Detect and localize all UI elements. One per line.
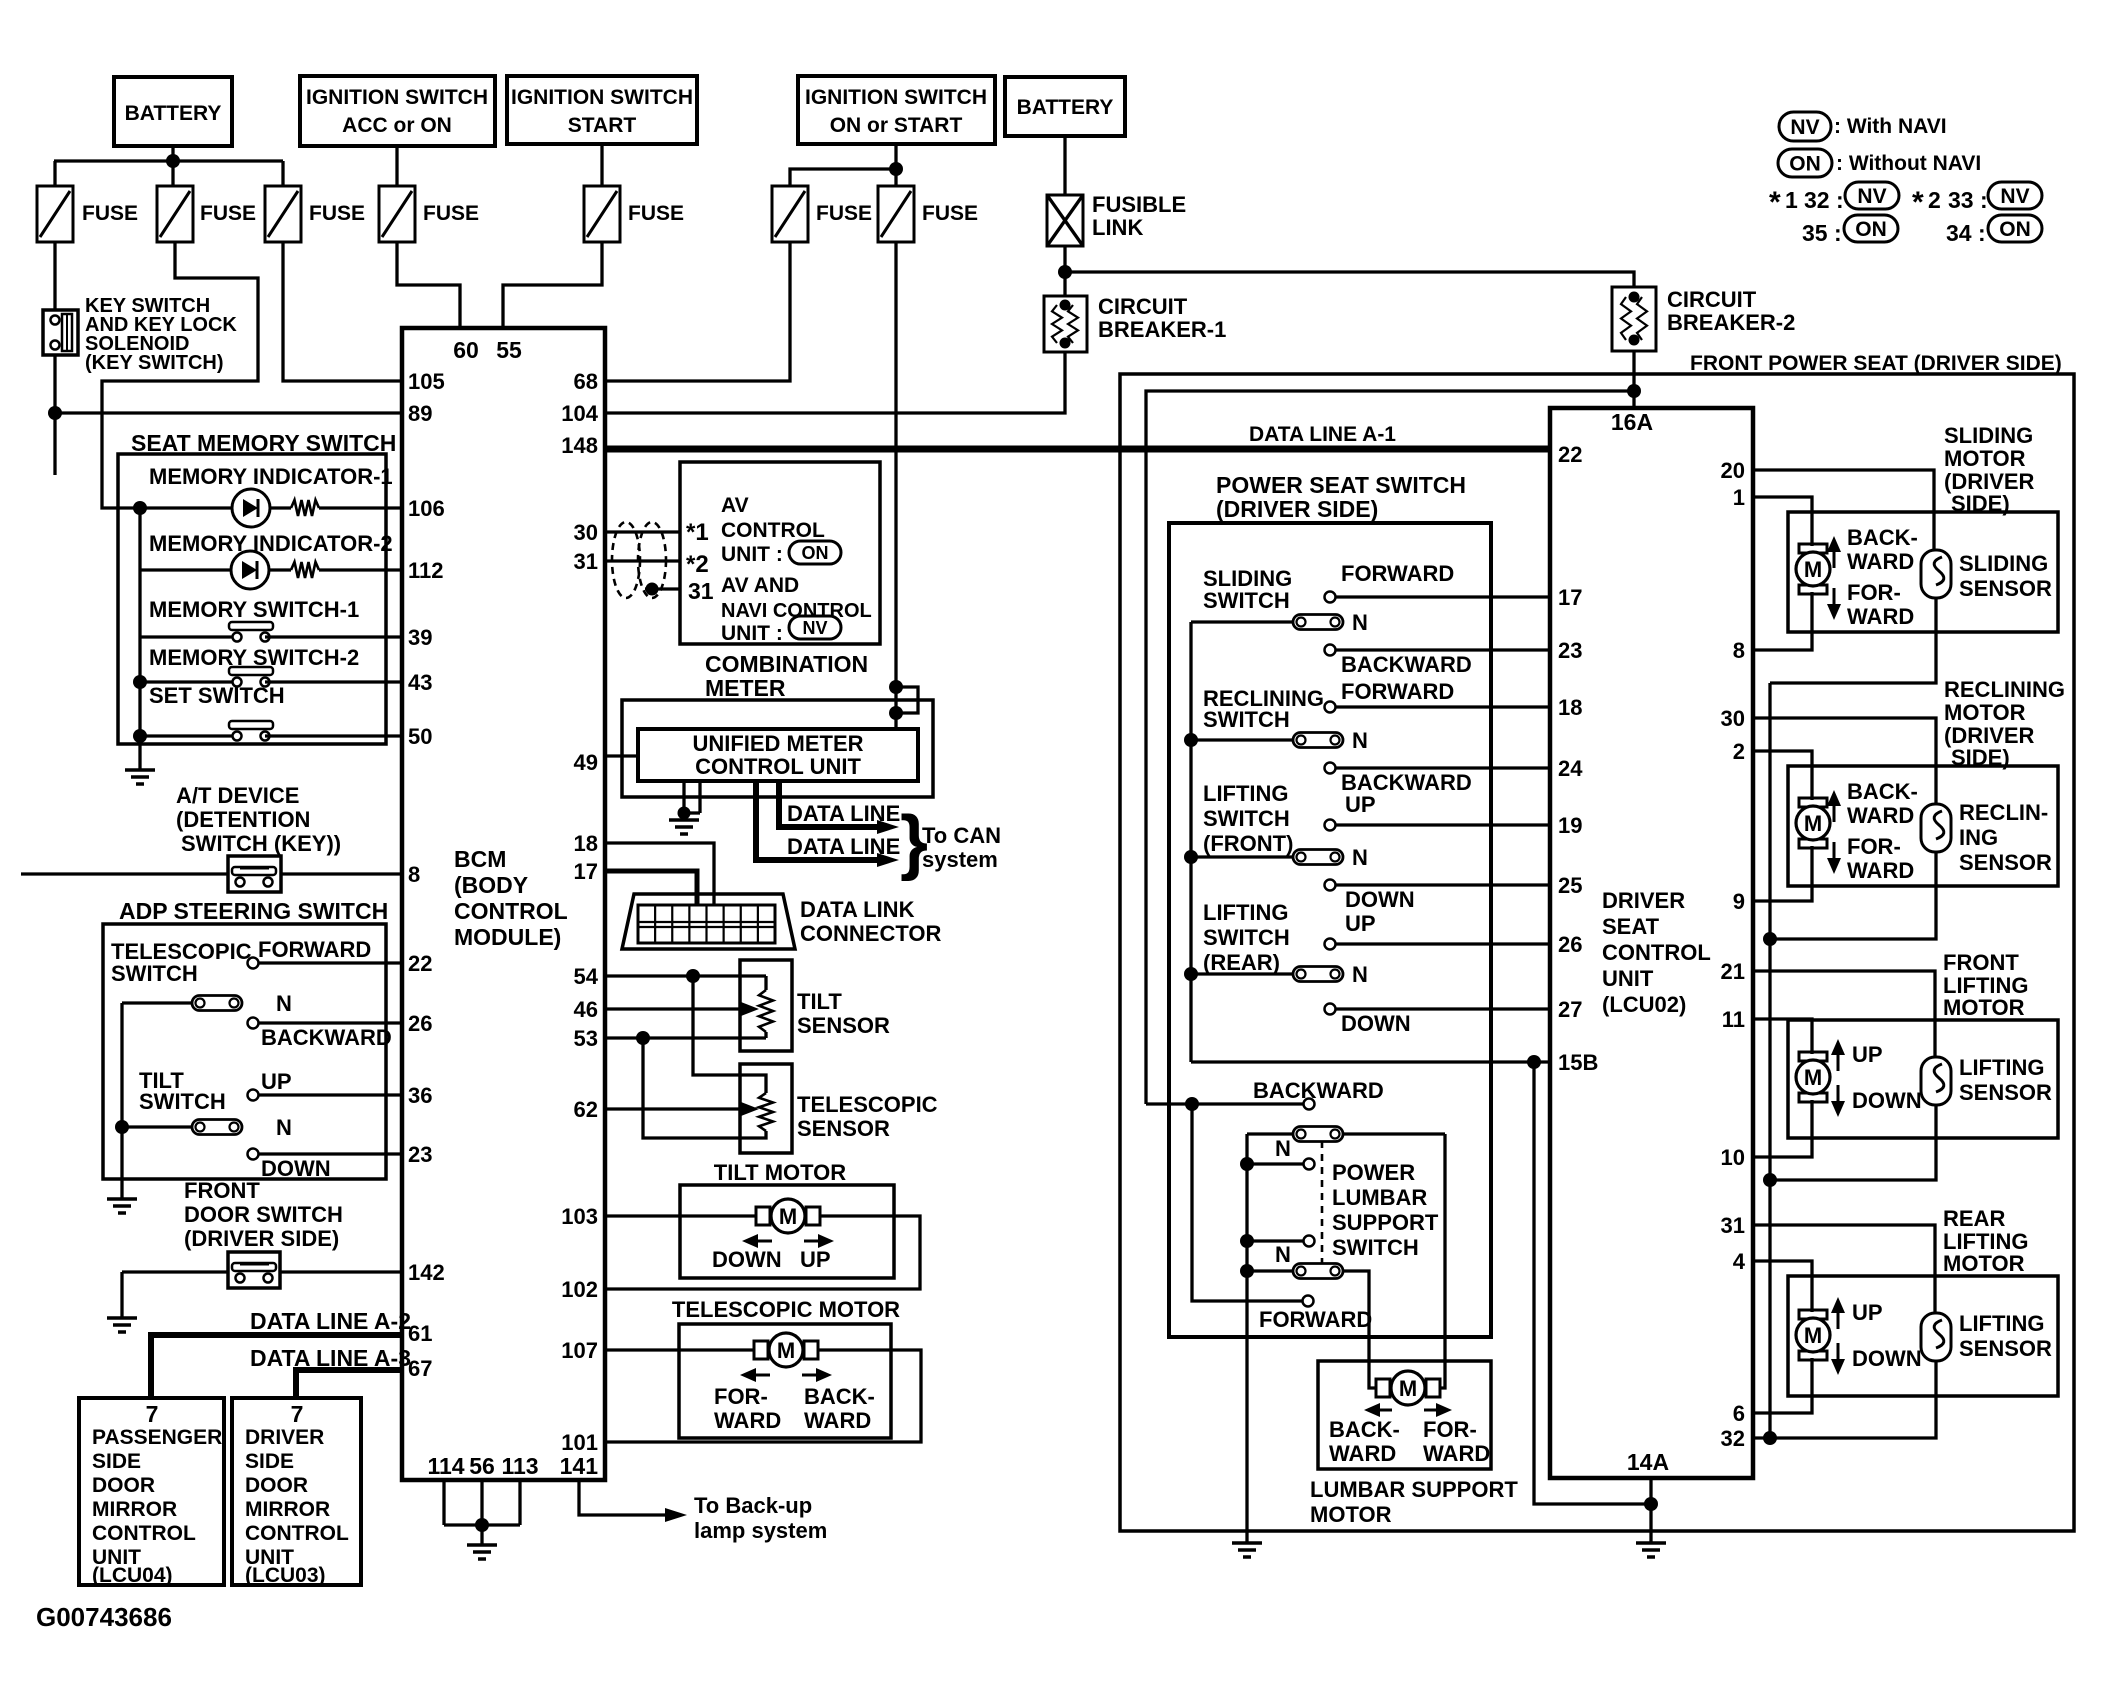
svg-text:LIFTING: LIFTING [1203,781,1289,806]
svg-text:7: 7 [146,1401,159,1427]
switch sliding N [1191,610,1368,635]
brace to CAN [900,802,928,882]
label data line A-2 [250,1308,411,1334]
contact lifting front up [1325,820,1551,831]
wire N bus [1189,622,1192,1062]
legend 34 ON [1946,215,2042,246]
label rear lifting sensor [1959,1311,2052,1361]
label DSCU pin 8 [1733,638,1745,663]
svg-text:FRONT POWER SEAT (DRIVER SIDE): FRONT POWER SEAT (DRIVER SIDE) [1690,352,2062,375]
svg-text:LUMBAR: LUMBAR [1332,1185,1427,1210]
svg-text:7: 7 [291,1401,304,1427]
svg-text:M: M [779,1204,797,1229]
wire DSCU pin 20 to sliding sensor [1753,470,1934,551]
svg-text:49: 49 [574,750,598,775]
svg-text:CIRCUIT: CIRCUIT [1667,287,1757,312]
svg-text:4: 4 [1733,1249,1746,1274]
wire BCM pin 103 to tilt motor [605,1214,756,1217]
label BCM pin 22 [408,951,432,976]
svg-text:MIRROR: MIRROR [245,1498,330,1521]
circuit breaker CB1 [1044,294,1226,352]
node N bus lifting front [1184,850,1198,864]
label DSCU pin 9 [1733,889,1745,914]
svg-text:SENSOR: SENSOR [1959,850,2052,875]
wire fuse F4 to BCM pin 60 [397,242,460,328]
svg-text:CONTROL: CONTROL [1602,940,1711,965]
svg-text:SLIDING: SLIDING [1959,551,2048,576]
svg-text:AV AND: AV AND [721,574,799,597]
svg-text:BACKWARD: BACKWARD [1341,652,1472,677]
svg-text:DOWN: DOWN [1341,1011,1411,1036]
svg-text:22: 22 [408,951,432,976]
svg-text:N: N [1275,1242,1291,1267]
sliding motor box [1788,512,2058,632]
contact lifting rear down [1325,1004,1551,1015]
node battery feed junction [166,154,180,168]
contact lifting rear up [1325,939,1551,950]
wire A/T switch to BCM pin 8 [281,872,402,875]
svg-text:DOOR: DOOR [245,1474,308,1497]
svg-text:N: N [1352,845,1368,870]
label memory switch-2 [149,645,359,670]
svg-text:FRONT: FRONT [184,1178,260,1203]
svg-text:SEAT MEMORY SWITCH: SEAT MEMORY SWITCH [131,430,396,456]
svg-text:33 :: 33 : [1948,187,1988,213]
wire sensor common bus [1768,683,1771,1438]
svg-text:17: 17 [574,859,598,884]
svg-text:FORWARD: FORWARD [258,937,371,962]
label telescopic motor [672,1297,900,1322]
svg-text:114: 114 [427,1453,464,1479]
svg-text:31: 31 [688,578,714,604]
svg-text:N: N [1275,1136,1291,1161]
wire junction to circuit breaker 2 [1065,272,1634,287]
wire front lifting motor to DSCU pin 10 [1753,1100,1812,1157]
svg-text:68: 68 [574,369,598,394]
svg-text:18: 18 [574,831,598,856]
label lifting front up [1345,792,1376,817]
label sliding forward [1341,561,1454,586]
node meter feed 1 [889,680,903,694]
svg-text:MEMORY INDICATOR-2: MEMORY INDICATOR-2 [149,531,393,556]
telescopic motor box [679,1324,891,1438]
switch lifting front N [1191,845,1368,870]
wire node to BCM pin 89 [55,411,402,414]
label sliding switch [1203,566,1292,613]
svg-text:BREAKER-2: BREAKER-2 [1667,310,1795,335]
wire ACC to fuse F4 [395,146,398,186]
svg-text:FUSE: FUSE [82,202,138,225]
AV ON pill [789,541,841,564]
wire START to fuse F5 [600,144,603,186]
svg-text:BACK-: BACK- [1847,525,1918,550]
tilt sensor box [740,960,792,1051]
sensor front lifting [1921,1057,1951,1105]
svg-text:SWITCH: SWITCH [1332,1235,1419,1260]
svg-text:START: START [568,114,637,137]
svg-text:system: system [922,847,998,872]
wire fusible link down [1063,246,1066,296]
svg-text:11: 11 [1722,1007,1745,1032]
svg-text:SENSOR: SENSOR [1959,1336,2052,1361]
power seat switch box [1169,523,1491,1337]
label DSCU pin 18 [1558,695,1582,720]
svg-text:WARD: WARD [1847,604,1914,629]
label DSCU pin 24 [1558,756,1583,781]
svg-text:23: 23 [1558,638,1582,663]
svg-text:101: 101 [561,1430,598,1455]
label BCM pin 26 [408,1011,432,1036]
svg-text:UNIT :: UNIT : [721,622,783,645]
node sensor bus rear lifting [1763,1431,1777,1445]
svg-text:BATTERY: BATTERY [125,102,222,125]
label lifting switch rear [1203,900,1290,975]
wire BCM ground stem [480,1525,483,1545]
ignition switch ON or START [798,76,995,144]
label A/T device [176,783,341,856]
svg-text:UP: UP [1345,911,1376,936]
wire BCM pin 62 wiper [605,1102,759,1116]
label AV pin 31 [688,578,714,604]
fuse F7 [878,186,978,242]
svg-text:53: 53 [574,1026,598,1051]
svg-text:10: 10 [1721,1145,1745,1170]
label down [261,1156,331,1181]
svg-text:BACK-: BACK- [1329,1417,1400,1442]
node power seat bus junction [1627,384,1641,398]
label tilt motor [714,1160,846,1185]
fuse F3 [265,186,365,242]
label front lifting up arrow [1831,1039,1883,1071]
label data line 2 [787,834,900,859]
svg-text:ON or START: ON or START [830,114,963,137]
label rear lifting motor [1943,1206,2029,1276]
fuse F6 [772,186,872,242]
svg-text:62: 62 [574,1097,598,1122]
wire BCM pin 18 to data link connector [605,843,714,905]
svg-text:FUSE: FUSE [922,202,978,225]
svg-text:34 :: 34 : [1946,220,1986,246]
wire battery B2 to fusible link [1063,136,1066,195]
label BCM pin 102 [561,1277,598,1302]
motor telescopic [754,1333,818,1367]
svg-text:DATA LINK: DATA LINK [800,897,915,922]
node set switch junction [133,729,147,743]
label DSCU pin 25 [1558,873,1582,898]
label DSCU pin 31 [1721,1213,1745,1238]
label DSCU pin 20 [1721,458,1745,483]
svg-text:ON: ON [1789,153,1821,176]
label tilt switch [139,1068,226,1114]
label BCM pin 68 [574,369,598,394]
svg-text:17: 17 [1558,585,1582,610]
wire UMCU to ground [678,781,701,820]
svg-text:REAR: REAR [1943,1206,2005,1231]
svg-text:A/T DEVICE: A/T DEVICE [176,783,299,808]
label BCM pin 39 [408,625,432,650]
label BCM pin 55 [496,337,522,363]
legend ON pill [1778,149,1832,177]
svg-text:6: 6 [1733,1401,1745,1426]
wire BCM pin 148 data line A-1 [605,446,1550,453]
svg-text:COMBINATION: COMBINATION [705,651,868,677]
label telescopic motor arrows [740,1368,832,1382]
svg-text:89: 89 [408,401,432,426]
fuse F4 [379,186,479,242]
svg-text:CONTROL: CONTROL [454,898,568,924]
label BCM pin 112 [408,558,444,583]
front power seat outer box [1120,374,2074,1531]
svg-text:BACK-: BACK- [804,1384,875,1409]
label BCM pin 54 [574,964,599,989]
svg-text:(LCU02): (LCU02) [1602,992,1686,1017]
tilt motor box [680,1185,894,1278]
ground UMCU [669,820,699,834]
svg-text:25: 25 [1558,873,1582,898]
svg-text:WARD: WARD [1847,549,1914,574]
svg-text:18: 18 [1558,695,1582,720]
svg-text:POWER SEAT SWITCH: POWER SEAT SWITCH [1216,472,1466,498]
legend *2 33 NV [1912,182,2042,219]
svg-text:54: 54 [574,964,599,989]
ground DSCU [1636,1543,1666,1557]
AV NV pill [789,616,841,639]
legend *1 32 NV [1769,182,1899,219]
svg-text:N: N [276,991,292,1016]
svg-text:55: 55 [496,337,522,363]
svg-text:N: N [1352,962,1368,987]
label AV and NAVI control unit [721,574,872,645]
node memory bus top [133,501,147,515]
svg-text:*1: *1 [686,519,709,546]
ground ADP steering switch [107,1199,137,1213]
label BCM pin 61 [408,1321,432,1346]
svg-text:DOWN: DOWN [1345,887,1415,912]
label data line 1 [787,801,900,826]
svg-text:DATA LINE: DATA LINE [787,801,900,826]
label BCM pin 62 [574,1097,598,1122]
legend with NAVI [1834,115,1947,138]
svg-text:FOR-: FOR- [1423,1417,1477,1442]
svg-text:21: 21 [1721,959,1745,984]
contact tilt up [248,1090,403,1101]
motor reclining [1796,798,1830,848]
svg-text:16A: 16A [1611,409,1653,435]
label driver seat control unit [1602,888,1711,1017]
svg-text:39: 39 [408,625,432,650]
svg-text:PASSENGER: PASSENGER [92,1426,222,1449]
svg-text:M: M [1804,557,1822,582]
svg-text:DRIVER: DRIVER [1602,888,1685,913]
svg-text:MOTOR: MOTOR [1943,1251,2025,1276]
node ignition feed junction [889,162,903,176]
wire ON/START down [894,144,897,170]
wire BCM pin 107 to telescopic motor [605,1348,754,1351]
label data line A-1 [1249,423,1396,446]
label lumbar support motor [1310,1477,1518,1527]
svg-text:BACK-: BACK- [1847,779,1918,804]
svg-text:43: 43 [408,670,432,695]
LED memory indicator-1 [140,489,291,527]
svg-text:SWITCH: SWITCH [1203,588,1290,613]
node N bus lifting rear [1184,967,1198,981]
svg-text:1: 1 [1785,187,1798,213]
svg-text:*: * [1912,186,1924,219]
label DSCU pin 32 [1721,1426,1745,1451]
label DSCU pin 2 [1733,739,1745,764]
svg-text:SWITCH: SWITCH [1203,925,1290,950]
label lumbar motor arrows [1364,1403,1452,1417]
label DSCU 16A [1611,409,1653,435]
svg-text:DATA LINE A-2: DATA LINE A-2 [250,1308,411,1334]
label DSCU pin 10 [1721,1145,1745,1170]
wire 15B branch to ground [1534,1062,1651,1504]
svg-text:LIFTING: LIFTING [1959,1055,2045,1080]
label BCM pin 18 [574,831,598,856]
label BCM pin 23 [408,1142,432,1167]
front door switch [228,1252,280,1288]
svg-text:FUSE: FUSE [628,202,684,225]
svg-text:METER: METER [705,675,786,701]
label sliding backward arrow [1827,525,1918,574]
svg-text:SIDE: SIDE [245,1450,294,1473]
svg-text:SENSOR: SENSOR [797,1013,890,1038]
label lifting front down [1345,887,1415,912]
label set switch [149,683,285,708]
svg-text:31: 31 [574,549,598,574]
label DSCU pin 23 [1558,638,1582,663]
svg-text:ADP STEERING SWITCH: ADP STEERING SWITCH [119,898,388,924]
label sliding forward arrow [1827,580,1914,629]
pushbutton set switch [140,721,402,741]
svg-text:DOWN: DOWN [1852,1088,1922,1113]
node lumbar feed split [1185,1097,1199,1111]
switch lumbar N1 [1275,1127,1343,1162]
svg-text:To CAN: To CAN [922,823,1001,848]
label BCM pin 8 [408,862,420,887]
svg-text:TILT MOTOR: TILT MOTOR [714,1160,846,1185]
svg-text:CONTROL: CONTROL [92,1522,196,1545]
label G00743686 [36,1602,172,1632]
AV control unit box [680,462,880,644]
contact sliding backward [1325,645,1551,656]
node 14A ground junction [1644,1497,1658,1511]
contact reclining backward [1325,763,1551,774]
label DSCU pin 17 [1558,585,1582,610]
wire lumbar bus to ground [1245,1337,1248,1543]
svg-text:19: 19 [1558,813,1582,838]
svg-text:UNIFIED METER: UNIFIED METER [692,731,863,756]
svg-text:UP: UP [261,1069,292,1094]
svg-text:LUMBAR SUPPORT: LUMBAR SUPPORT [1310,1477,1518,1502]
label BCM pin 101 [561,1430,598,1455]
label BCM pin 60 [453,337,479,363]
svg-text:9: 9 [1733,889,1745,914]
svg-text:UNIT: UNIT [1602,966,1654,991]
wire fuse F3 to BCM pin 105 [283,242,402,381]
label forward [258,937,371,962]
node sensor bus front lifting [1763,1173,1777,1187]
label data line A-3 [250,1345,411,1371]
label power lumbar support switch [1332,1160,1439,1260]
ADP steering switch box [103,924,386,1179]
fuse F1 [37,186,138,242]
svg-text:113: 113 [501,1453,538,1479]
contact reclining forward [1325,702,1551,713]
svg-text:DOWN: DOWN [712,1247,782,1272]
label BCM pin 46 [574,997,598,1022]
label lumbar backward [1253,1078,1384,1103]
wire DSCU pin 2 to reclining motor [1753,751,1812,800]
wire DSCU pin 31 to rear lifting sensor [1753,1225,1935,1313]
switch reclining N [1191,728,1368,753]
svg-text:SET SWITCH: SET SWITCH [149,683,285,708]
label memory indicator-1 [149,464,393,489]
label sliding backward [1341,652,1472,677]
svg-text:SWITCH (KEY)): SWITCH (KEY)) [181,831,341,856]
svg-text:FORWARD: FORWARD [1259,1307,1372,1332]
wire data line 2 [756,781,899,867]
power lumbar support switch box [1247,1134,1445,1337]
svg-text:FOR-: FOR- [1847,580,1901,605]
label to back-up lamp system [694,1493,827,1543]
svg-text:22: 22 [1558,442,1582,467]
label sliding sensor [1959,551,2052,601]
svg-text:24: 24 [1558,756,1583,781]
svg-text:CIRCUIT: CIRCUIT [1098,294,1188,319]
svg-text:IGNITION SWITCH: IGNITION SWITCH [306,86,488,109]
label DSCU pin 11 [1722,1007,1745,1032]
contact tilt down [248,1149,403,1160]
label BCM pin 17 [574,859,598,884]
label reclining backward arrow [1827,779,1918,828]
label reclining forward [1341,679,1454,704]
label BCM pin 141 [560,1453,599,1479]
node fusible link junction [1058,265,1072,279]
svg-text:FUSE: FUSE [816,202,872,225]
svg-text:MEMORY SWITCH-1: MEMORY SWITCH-1 [149,597,359,622]
label BCM pin 53 [574,1026,598,1051]
svg-text:DRIVER: DRIVER [245,1426,324,1449]
node 15B branch [1527,1055,1541,1069]
node ADP bus [115,1120,129,1134]
label BCM pin 49 [574,750,598,775]
svg-text:FRONT: FRONT [1943,950,2019,975]
wire DSCU pin 21 to front lifting sensor [1753,971,1935,1057]
label rear lifting up arrow [1831,1297,1883,1329]
wire CB2 to power seat bus [1632,351,1635,408]
label BCM pin 43 [408,670,432,695]
seat memory switch box [118,454,386,744]
label combination meter [705,651,868,701]
label DSCU pin 1 [1733,485,1745,510]
wire BCM pin 141 to back-up lamp [579,1480,687,1522]
svg-text:FUSE: FUSE [200,202,256,225]
wire node to fuse F7 [894,169,897,186]
label BCM pin 67 [408,1356,432,1381]
motor tilt [756,1199,820,1233]
svg-text:MOTOR: MOTOR [1944,446,2026,471]
wire fuse F2 to seat memory feed [102,242,258,508]
motor lumbar [1376,1371,1440,1405]
svg-text:(LCU04): (LCU04) [92,1564,173,1587]
svg-text:DATA LINE A-1: DATA LINE A-1 [1249,423,1396,446]
svg-text:67: 67 [408,1356,432,1381]
svg-text:SWITCH: SWITCH [1203,806,1290,831]
label lumbar N2 [1275,1242,1291,1267]
svg-text:RECLIN-: RECLIN- [1959,800,2048,825]
telescopic sensor box [740,1064,792,1153]
